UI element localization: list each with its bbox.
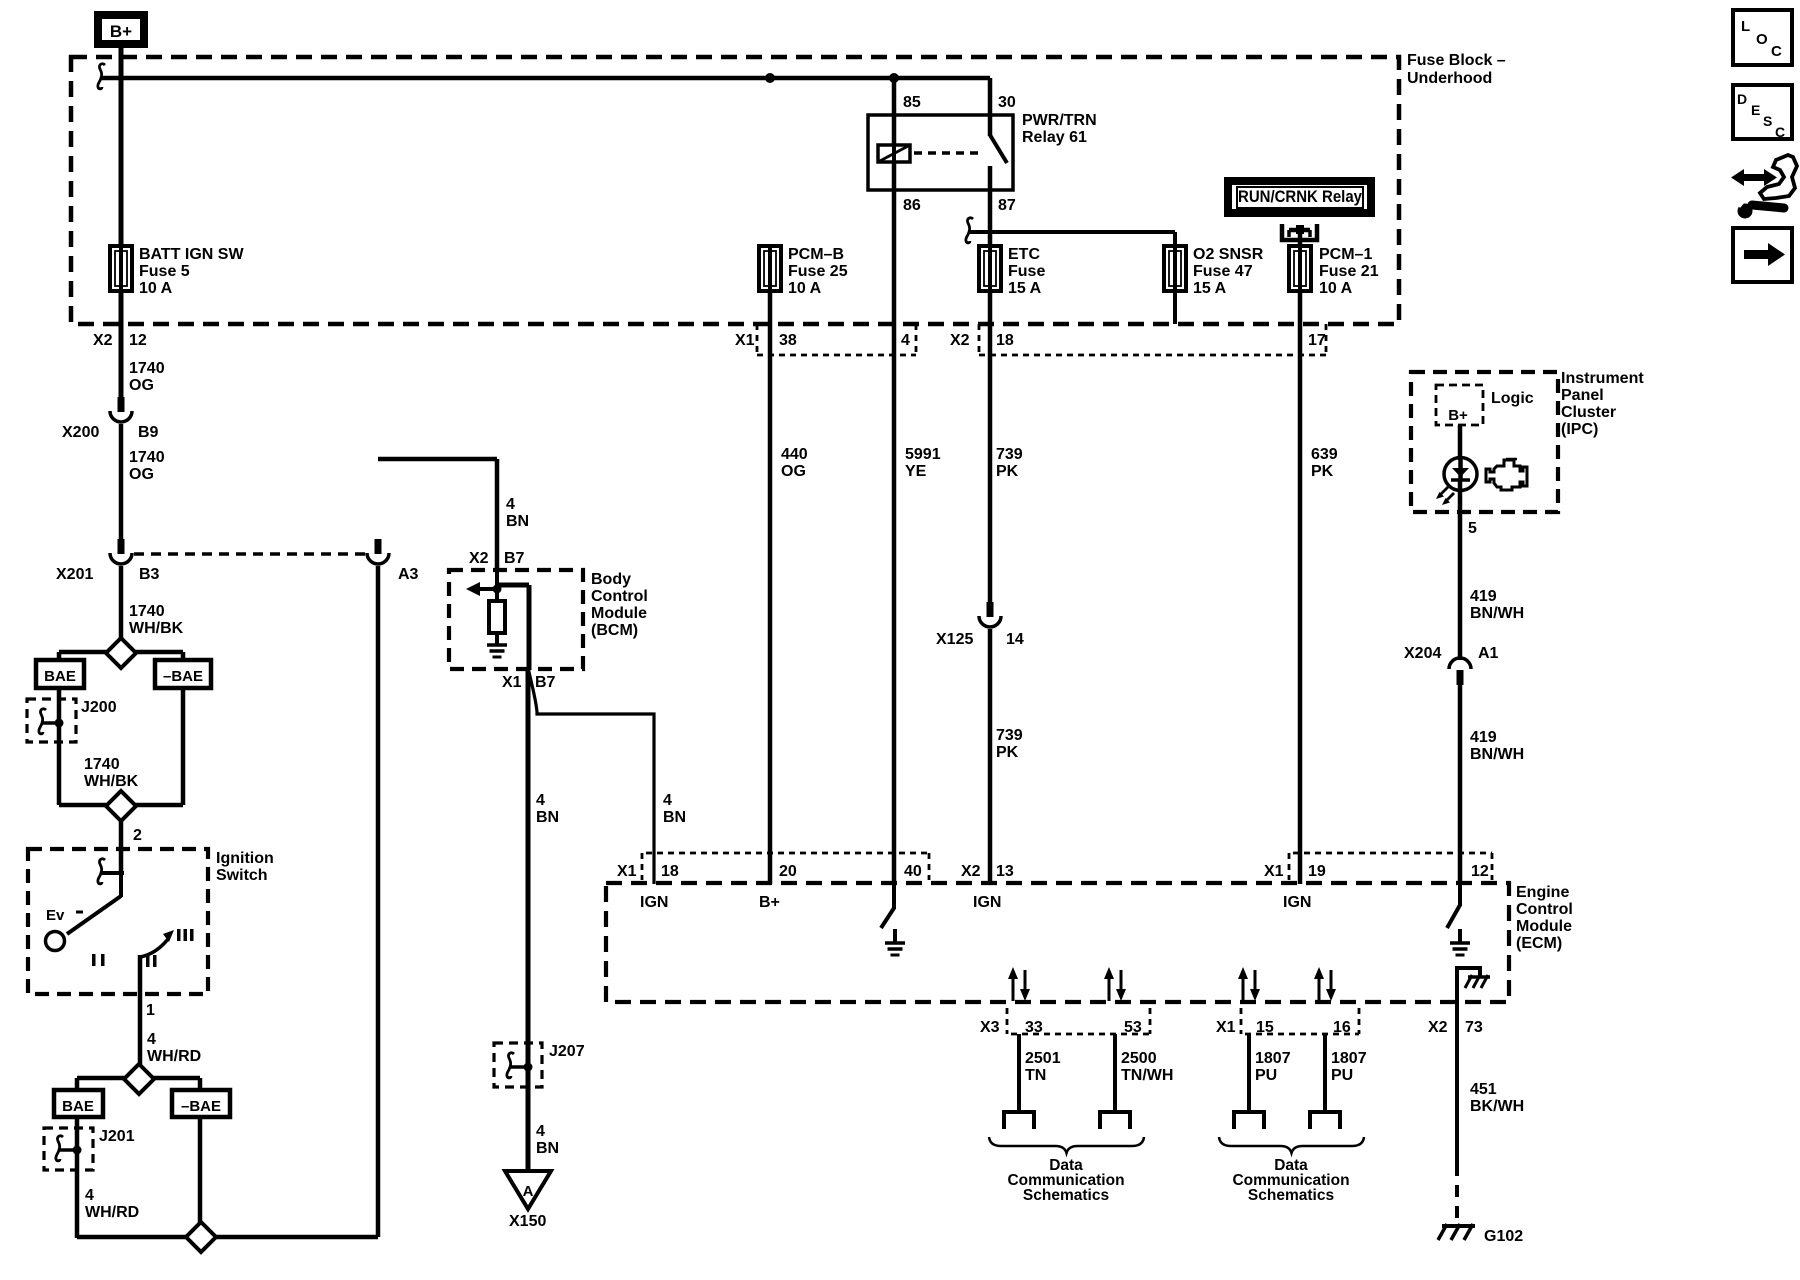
ECM connector strip X1 left xyxy=(641,853,644,880)
wire ignition output xyxy=(138,955,143,1066)
svg-text:Fuse: Fuse xyxy=(1008,263,1045,280)
junction dot bus/relay85 xyxy=(889,73,899,83)
BCM junction dot xyxy=(493,585,502,594)
ground G102 xyxy=(1442,1224,1475,1228)
svg-text:30: 30 xyxy=(998,94,1016,111)
svg-text:B+: B+ xyxy=(110,22,132,41)
svg-text:33: 33 xyxy=(1025,1019,1043,1036)
svg-text:1807: 1807 xyxy=(1331,1050,1367,1067)
wire LED to pin 5 xyxy=(1458,480,1463,514)
svg-text:PK: PK xyxy=(1311,463,1334,480)
data arrows pin16 xyxy=(1318,978,1321,1001)
svg-text:Cluster: Cluster xyxy=(1561,404,1616,421)
terminal box BAE upper xyxy=(36,660,84,688)
brace data comm right xyxy=(1219,1137,1364,1153)
svg-text:YE: YE xyxy=(905,463,927,480)
ECM internal case ground pin73 xyxy=(1457,968,1480,1002)
svg-text:Switch: Switch xyxy=(216,867,268,884)
wire 2500 TN/WH xyxy=(1113,1034,1117,1112)
svg-text:X1: X1 xyxy=(617,863,637,880)
svg-text:1: 1 xyxy=(146,1002,155,1019)
ECM internal switch pin40 xyxy=(892,884,896,909)
wire X204 to ECM 12 xyxy=(1458,685,1463,884)
power terminal B+ xyxy=(98,15,144,44)
svg-text:PU: PU xyxy=(1331,1067,1353,1084)
svg-text:WH/BK: WH/BK xyxy=(129,620,184,637)
svg-text:X3: X3 xyxy=(980,1019,1000,1036)
splice J200 dashed box xyxy=(27,699,76,742)
svg-text:4: 4 xyxy=(536,792,545,809)
fuse O2 SNSR Fuse 47 xyxy=(1164,246,1186,291)
inline connector X204 A1 xyxy=(1449,658,1471,669)
svg-text:J201: J201 xyxy=(99,1128,135,1145)
svg-text:2500: 2500 xyxy=(1121,1050,1157,1067)
svg-text:B9: B9 xyxy=(138,424,159,441)
ECM bottom strip X1 xyxy=(1240,1008,1243,1034)
wire A3 to BCM corner xyxy=(378,457,497,462)
svg-text:TN/WH: TN/WH xyxy=(1121,1067,1173,1084)
ECM connector strip X1 right xyxy=(1288,853,1291,880)
svg-text:Control: Control xyxy=(591,588,648,605)
curl at B+ bus tap xyxy=(98,64,105,89)
splice diamond S2 xyxy=(59,803,107,808)
svg-text:86: 86 xyxy=(903,197,921,214)
svg-text:Engine: Engine xyxy=(1516,884,1569,901)
svg-text:BN: BN xyxy=(663,809,686,826)
svg-text:X125: X125 xyxy=(936,631,973,648)
svg-text:(BCM): (BCM) xyxy=(591,622,638,639)
svg-text:4: 4 xyxy=(506,496,515,513)
svg-text:4: 4 xyxy=(663,792,672,809)
svg-text:1807: 1807 xyxy=(1255,1050,1291,1067)
svg-text:PK: PK xyxy=(996,744,1019,761)
wire 440 OG xyxy=(768,291,773,884)
fuse block underhood dashed box xyxy=(71,57,1399,324)
svg-text:IGN: IGN xyxy=(973,894,1001,911)
svg-text:Fuse 25: Fuse 25 xyxy=(788,263,848,280)
svg-text:BN: BN xyxy=(536,809,559,826)
svg-text:–BAE: –BAE xyxy=(181,1098,221,1115)
svg-text:C: C xyxy=(1771,43,1782,60)
off-page connector pin16 xyxy=(1310,1112,1340,1129)
svg-text:X2: X2 xyxy=(1428,1019,1448,1036)
brace data comm left xyxy=(989,1137,1144,1153)
connector X2 strip under fuse block xyxy=(978,324,981,355)
svg-text:38: 38 xyxy=(779,332,797,349)
svg-text:Fuse Block –: Fuse Block – xyxy=(1407,52,1506,69)
svg-text:53: 53 xyxy=(1124,1019,1142,1036)
J200 junction xyxy=(55,719,64,728)
data arrows pin15 xyxy=(1242,978,1245,1001)
svg-text:A: A xyxy=(523,1183,534,1200)
svg-text:Ignition: Ignition xyxy=(216,850,274,867)
wire 1807 PU a xyxy=(1247,1034,1251,1112)
check engine icon xyxy=(1486,460,1527,490)
IPC dashed box xyxy=(1411,372,1558,512)
ECM dashed box xyxy=(606,883,1509,1002)
svg-text:19: 19 xyxy=(1308,863,1326,880)
svg-text:2501: 2501 xyxy=(1025,1050,1061,1067)
wire 451 BK/WH xyxy=(1455,1002,1459,1164)
svg-text:419: 419 xyxy=(1470,588,1497,605)
wire -BAE to splice2 xyxy=(181,688,186,805)
J207 junction xyxy=(524,1063,533,1072)
svg-text:Logic: Logic xyxy=(1491,390,1534,407)
off-page connector pin53 xyxy=(1100,1112,1130,1129)
svg-text:RUN/CRNK Relay: RUN/CRNK Relay xyxy=(1238,187,1362,206)
icon LOC box xyxy=(1733,10,1792,65)
svg-text:B3: B3 xyxy=(139,566,160,583)
svg-text:17: 17 xyxy=(1308,332,1326,349)
indicator LED circle xyxy=(1444,458,1477,491)
relay coil xyxy=(878,145,910,162)
svg-text:S: S xyxy=(1763,113,1772,129)
wire relay pin 87 down xyxy=(988,166,993,246)
svg-text:A3: A3 xyxy=(398,566,419,583)
position mark I xyxy=(92,954,96,966)
svg-text:1740: 1740 xyxy=(84,756,120,773)
wire logic to LED xyxy=(1458,425,1463,460)
wire relay pin 86 down xyxy=(892,162,897,884)
svg-text:5: 5 xyxy=(1468,520,1477,537)
wire BCM X1-B7 main down xyxy=(526,667,531,1173)
svg-text:639: 639 xyxy=(1311,446,1338,463)
position mark III xyxy=(177,929,181,941)
wire 2501 TN xyxy=(1017,1034,1021,1112)
ignition contact circle xyxy=(46,932,65,951)
svg-text:87: 87 xyxy=(998,197,1016,214)
ECM internal ground pin40 xyxy=(893,929,897,944)
svg-text:BN: BN xyxy=(506,513,529,530)
svg-text:X150: X150 xyxy=(509,1213,546,1230)
fuse PCM-B Fuse 25 xyxy=(759,246,781,291)
svg-text:O2 SNSR: O2 SNSR xyxy=(1193,246,1264,263)
svg-text:Panel: Panel xyxy=(1561,387,1604,404)
svg-text:4: 4 xyxy=(85,1187,94,1204)
svg-text:X2: X2 xyxy=(950,332,970,349)
svg-text:X1: X1 xyxy=(1216,1019,1236,1036)
ECM internal switch pin12 xyxy=(1458,884,1462,906)
svg-text:D: D xyxy=(1737,91,1747,107)
svg-text:BAE: BAE xyxy=(44,668,76,685)
dashed connector link X201-A3 xyxy=(134,552,367,556)
RUN/CRNK relay label box xyxy=(1228,181,1371,213)
wire pin87 branch to O2 fuse xyxy=(969,230,1175,234)
svg-text:4: 4 xyxy=(147,1031,156,1048)
svg-text:Body: Body xyxy=(591,571,631,588)
inline connector A3 xyxy=(375,539,382,554)
svg-text:14: 14 xyxy=(1006,631,1024,648)
data arrows pin33 xyxy=(1012,978,1015,1001)
wire splice2 to ignition switch xyxy=(119,821,124,873)
terminal box BAE lower xyxy=(54,1090,103,1117)
svg-text:X1: X1 xyxy=(1264,863,1284,880)
curl at ignition junction xyxy=(98,859,105,884)
svg-text:Schematics: Schematics xyxy=(1248,1187,1334,1204)
svg-text:BAE: BAE xyxy=(62,1098,94,1115)
svg-text:OG: OG xyxy=(781,463,806,480)
BCM internal resistor xyxy=(489,601,505,633)
wire branch curve to ECM 18 xyxy=(529,672,654,884)
BCM internal ground xyxy=(487,643,507,647)
svg-text:BN: BN xyxy=(536,1140,559,1157)
fuse PCM-1 Fuse 21 xyxy=(1289,246,1311,291)
svg-text:85: 85 xyxy=(903,94,921,111)
svg-text:E: E xyxy=(1751,102,1760,118)
wire BCM pin to junction xyxy=(495,570,499,601)
fuse ETC Fuse xyxy=(979,246,1001,291)
svg-text:1740: 1740 xyxy=(129,603,165,620)
svg-text:BN/WH: BN/WH xyxy=(1470,746,1524,763)
ignition detent arc arrow xyxy=(140,939,168,957)
svg-text:WH/RD: WH/RD xyxy=(147,1048,201,1065)
svg-text:OG: OG xyxy=(129,377,154,394)
svg-text:(IPC): (IPC) xyxy=(1561,421,1598,438)
ECM bottom strip X3 xyxy=(1006,1008,1009,1034)
svg-text:Fuse 21: Fuse 21 xyxy=(1319,263,1379,280)
wire fuse5 to X200 xyxy=(119,291,124,400)
svg-text:B+: B+ xyxy=(1448,407,1468,424)
svg-text:Fuse 5: Fuse 5 xyxy=(139,263,190,280)
connector X1 strip under fuse block xyxy=(756,324,759,355)
ECM internal ground pin12 xyxy=(1458,929,1462,944)
wire dashed to G102 xyxy=(1455,1164,1459,1223)
wire 739 PK lower xyxy=(988,629,993,884)
off-page connector pin33 xyxy=(1004,1112,1034,1129)
svg-text:WH/RD: WH/RD xyxy=(85,1204,139,1221)
BCM arrow to other circuits xyxy=(478,587,497,591)
svg-text:20: 20 xyxy=(779,863,797,880)
wire resistor to ground xyxy=(495,633,499,646)
splice diamond S3 xyxy=(77,1076,125,1081)
svg-text:451: 451 xyxy=(1470,1081,1497,1098)
svg-text:Module: Module xyxy=(591,605,647,622)
svg-text:WH/BK: WH/BK xyxy=(84,773,139,790)
svg-text:Underhood: Underhood xyxy=(1407,70,1492,87)
wire 639 PK xyxy=(1298,291,1303,884)
svg-text:15 A: 15 A xyxy=(1008,280,1042,297)
icon connector repair xyxy=(1731,169,1762,186)
svg-text:739: 739 xyxy=(996,446,1023,463)
icon arrow box xyxy=(1733,228,1792,282)
svg-text:O: O xyxy=(1756,31,1768,48)
svg-text:PCM–1: PCM–1 xyxy=(1319,246,1372,263)
svg-text:12: 12 xyxy=(1471,863,1489,880)
wire bottom run right xyxy=(215,1235,378,1240)
svg-text:18: 18 xyxy=(996,332,1014,349)
svg-text:10 A: 10 A xyxy=(139,280,173,297)
wire BAE2 down xyxy=(75,1117,80,1238)
inline connector X125 14 xyxy=(987,602,994,617)
junction dot bus/PCM-B xyxy=(765,73,775,83)
svg-text:X2: X2 xyxy=(961,863,981,880)
svg-text:BN/WH: BN/WH xyxy=(1470,605,1524,622)
svg-text:13: 13 xyxy=(996,863,1014,880)
wire X200 to X201 xyxy=(119,424,124,542)
off-page triangle A / X150 xyxy=(505,1171,551,1209)
svg-text:A1: A1 xyxy=(1478,645,1499,662)
svg-text:2: 2 xyxy=(133,827,142,844)
svg-text:–BAE: –BAE xyxy=(163,668,203,685)
wire relay pin 85 xyxy=(892,78,897,150)
svg-text:Module: Module xyxy=(1516,918,1572,935)
inline connector X200 B9 xyxy=(118,397,125,412)
svg-text:J207: J207 xyxy=(549,1043,585,1060)
terminal box -BAE lower xyxy=(172,1090,230,1117)
svg-text:419: 419 xyxy=(1470,729,1497,746)
svg-text:(ECM): (ECM) xyxy=(1516,935,1562,952)
terminal box -BAE upper xyxy=(155,660,211,688)
svg-text:IGN: IGN xyxy=(640,894,668,911)
svg-text:C: C xyxy=(1775,124,1785,140)
svg-text:73: 73 xyxy=(1465,1019,1483,1036)
svg-text:Control: Control xyxy=(1516,901,1573,918)
position mark II xyxy=(146,955,150,967)
svg-text:X1: X1 xyxy=(735,332,755,349)
svg-text:PCM–B: PCM–B xyxy=(788,246,844,263)
wire O2 fuse to block edge xyxy=(1173,291,1177,324)
wire IPC out xyxy=(1458,514,1463,660)
wire -BAE2 to splice4 xyxy=(198,1117,203,1224)
svg-text:Ev: Ev xyxy=(46,907,65,924)
wire X201 to splice1 xyxy=(119,566,124,640)
ignition switch dashed box xyxy=(28,849,208,994)
svg-text:PK: PK xyxy=(996,463,1019,480)
svg-text:IGN: IGN xyxy=(1283,894,1311,911)
RUN/CRNK relay output terminal xyxy=(1282,224,1317,240)
svg-text:Fuse 47: Fuse 47 xyxy=(1193,263,1253,280)
J201 junction xyxy=(73,1146,82,1155)
svg-text:B+: B+ xyxy=(759,894,780,911)
wire A3 riser xyxy=(376,566,381,1237)
off-page connector pin15 xyxy=(1234,1112,1264,1129)
wire BAE to J200 xyxy=(57,688,62,805)
svg-text:X200: X200 xyxy=(62,424,99,441)
svg-text:Instrument: Instrument xyxy=(1561,370,1644,387)
LED emission arrows xyxy=(1439,487,1448,496)
svg-text:16: 16 xyxy=(1333,1019,1351,1036)
LED diode xyxy=(1452,468,1469,477)
svg-text:440: 440 xyxy=(781,446,808,463)
svg-text:X204: X204 xyxy=(1404,645,1441,662)
svg-text:X1: X1 xyxy=(502,674,522,691)
IPC logic dashed box xyxy=(1436,385,1483,425)
svg-text:X2: X2 xyxy=(469,550,489,567)
svg-text:OG: OG xyxy=(129,466,154,483)
svg-text:B7: B7 xyxy=(504,550,525,567)
curl at pin 87 junction xyxy=(966,218,973,243)
wire 739 PK upper xyxy=(988,291,993,605)
svg-text:TN: TN xyxy=(1025,1067,1046,1084)
inline connector X201 B3 xyxy=(118,539,125,554)
ignition switch blade xyxy=(119,873,123,897)
data arrows pin53 xyxy=(1108,978,1111,1001)
svg-text:4: 4 xyxy=(536,1123,545,1140)
relay switch blade xyxy=(990,135,1007,163)
svg-text:4: 4 xyxy=(901,332,910,349)
wire B+ to fuse 5 xyxy=(119,44,124,246)
wire 1807 PU b xyxy=(1323,1034,1327,1112)
svg-text:B7: B7 xyxy=(535,674,556,691)
BCM branch to X1 B7 xyxy=(495,583,529,588)
svg-text:15 A: 15 A xyxy=(1193,280,1227,297)
svg-text:10 A: 10 A xyxy=(788,280,822,297)
svg-text:5991: 5991 xyxy=(905,446,941,463)
wire splice1 arms xyxy=(59,650,107,655)
svg-text:G102: G102 xyxy=(1484,1228,1523,1245)
svg-text:12: 12 xyxy=(129,332,147,349)
svg-text:40: 40 xyxy=(904,863,922,880)
svg-text:Schematics: Schematics xyxy=(1023,1187,1109,1204)
bus wire from B+ to relay pin 30 xyxy=(101,76,990,81)
svg-text:PU: PU xyxy=(1255,1067,1277,1084)
fuse BATT IGN SW Fuse 5 xyxy=(110,246,132,291)
svg-text:ETC: ETC xyxy=(1008,246,1040,263)
BCM dashed box xyxy=(449,570,583,669)
relay PWR/TRN box xyxy=(868,115,1013,190)
splice J201 dashed box xyxy=(44,1128,93,1170)
svg-text:PWR/TRN: PWR/TRN xyxy=(1022,112,1097,129)
icon DESC box xyxy=(1733,85,1792,139)
svg-text:J200: J200 xyxy=(81,699,117,716)
relay dashed actuation link xyxy=(914,151,982,155)
splice J207 dashed box xyxy=(494,1043,542,1087)
svg-text:X201: X201 xyxy=(56,566,93,583)
wire bottom run left xyxy=(77,1235,187,1240)
svg-text:10 A: 10 A xyxy=(1319,280,1353,297)
svg-text:1740: 1740 xyxy=(129,360,165,377)
svg-text:15: 15 xyxy=(1256,1019,1274,1036)
splice diamond S4 xyxy=(186,1222,216,1252)
svg-text:X2: X2 xyxy=(93,332,113,349)
svg-text:BK/WH: BK/WH xyxy=(1470,1098,1524,1115)
svg-text:Relay 61: Relay 61 xyxy=(1022,129,1087,146)
svg-text:1740: 1740 xyxy=(129,449,165,466)
svg-text:18: 18 xyxy=(661,863,679,880)
svg-text:BATT IGN SW: BATT IGN SW xyxy=(139,246,244,263)
svg-text:739: 739 xyxy=(996,727,1023,744)
svg-text:L: L xyxy=(1741,18,1750,35)
splice diamond S1 xyxy=(106,638,136,668)
